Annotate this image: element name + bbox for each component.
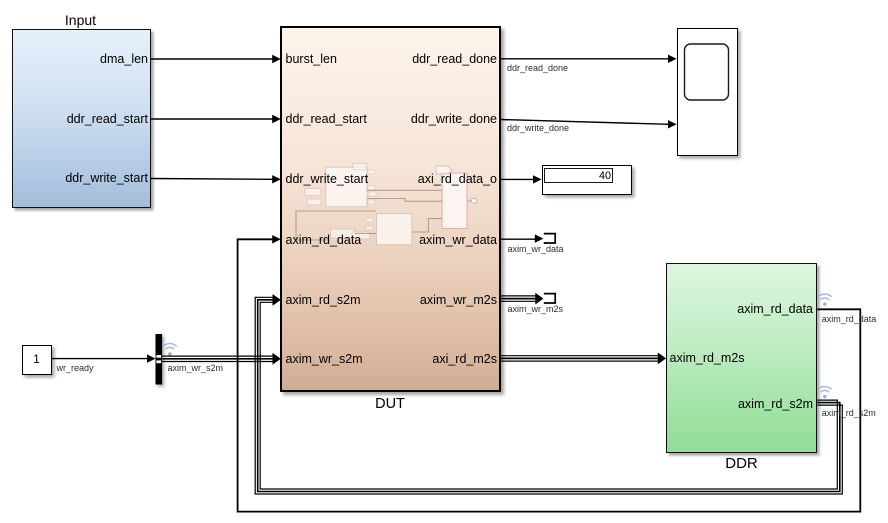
block DDR (memory subsystem) (666, 263, 817, 453)
port label dma_len (0, 0, 1, 1)
port label axi_rd_m2s (364, 353, 497, 366)
signal label axim_rd_data (822, 315, 877, 324)
signal label axim_rd_s2m (822, 409, 876, 418)
port label axim_rd_s2m (DUT) (286, 294, 361, 307)
signal label axim_wr_m2s (508, 305, 564, 314)
label Input title (40, 13, 121, 27)
label DUT title (350, 397, 430, 411)
wire dma_len -> burst_len (150, 55, 281, 63)
logging badge axim_rd_data (wifi icon) (818, 294, 831, 306)
wire loop DDR axim_rd_data -> DUT axim_rd_data (238, 235, 861, 512)
scope screen (inner rounded rect) (685, 44, 729, 100)
port label axim_rd_s2m (DDR) (680, 398, 813, 411)
bus wire loop DDR axim_rd_s2m -> DUT axim_rd_s2m (255, 294, 842, 494)
label DDR title (701, 457, 782, 471)
signal label axim_wr_s2m (168, 364, 224, 373)
block Constant wr_ready (value 1) (22, 345, 52, 375)
port label ddr_read_start (DUT) (286, 113, 367, 126)
block DUT (device under test subsystem) (280, 26, 501, 392)
bus creator bar (156, 334, 163, 385)
port label axim_rd_data (DUT) (286, 234, 362, 247)
terminator icon axim_wr_data (544, 234, 555, 243)
display inner field (544, 168, 613, 184)
DUT ghost internal block C (442, 173, 467, 229)
port label ddr_write_start (DUT) (286, 173, 369, 186)
DUT ghost error segment (red) (467, 199, 477, 204)
signal label axim_wr_data (508, 245, 564, 254)
signal label ddr_read_done (507, 64, 568, 73)
wire ddr_write_done -> scope input 2 (500, 120, 677, 129)
block Input (source subsystem) (12, 29, 152, 208)
logging badge axim_wr_s2m (wifi icon) (164, 344, 177, 356)
wire ddr_read_done -> scope input 1 (500, 55, 677, 63)
wire constant -> bus bar (52, 354, 156, 362)
port label axim_wr_data (364, 234, 497, 247)
port label axi_rd_data_o (364, 173, 497, 186)
signal label wr_ready (57, 364, 94, 373)
DUT ghost internal block A (326, 167, 367, 207)
port label burst_len (286, 53, 337, 66)
signal label ddr_write_done (507, 124, 569, 133)
wire ddr_read_start (150, 115, 281, 123)
bus wire bar -> axim_wr_s2m (162, 353, 281, 365)
terminator icon axim_wr_m2s (544, 294, 555, 303)
port label axim_wr_s2m (DUT) (286, 353, 363, 366)
DUT ghost internal block B (376, 214, 411, 245)
logging badge axim_rd_s2m (wifi icon) (818, 387, 831, 399)
wire axi_rd_data_o -> display (500, 175, 542, 183)
DUT ghost input tabs (305, 164, 452, 240)
port label ddr_write_start (12, 172, 149, 185)
bus wire axi_rd_m2s -> DDR axim_rd_m2s (500, 353, 666, 365)
wire axim_wr_data -> terminator (500, 234, 543, 242)
display value 40 (544, 171, 611, 182)
bus wire axim_wr_m2s -> terminator (500, 293, 543, 305)
block Display (value 40) (542, 165, 632, 195)
port label ddr_write_done (364, 113, 497, 126)
port label axim_rd_data (DDR) (680, 303, 813, 316)
block Scope (677, 28, 738, 156)
port label ddr_read_done (364, 53, 497, 66)
wire ddr_write_start (150, 175, 281, 183)
constant value 1 (22, 353, 52, 365)
DUT ghost wires (296, 190, 442, 240)
port label ddr_read_start (12, 113, 149, 126)
port label axim_wr_m2s (364, 294, 497, 307)
port label axim_rd_m2s (DDR) (670, 352, 745, 365)
